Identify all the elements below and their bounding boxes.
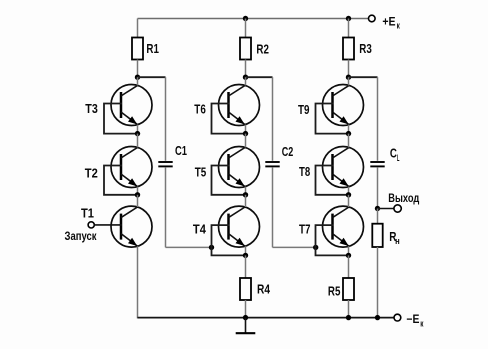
capacitor CL — [370, 146, 399, 167]
wire R2 to collector node — [245, 60, 247, 78]
wire CL branch upper — [377, 77, 379, 161]
svg-text:C2: C2 — [282, 144, 294, 159]
svg-text:к: к — [420, 318, 424, 328]
resistor R4 — [240, 278, 271, 300]
svg-text:Запуск: Запуск — [65, 229, 97, 243]
resistor R2 — [240, 38, 269, 60]
svg-text:R5: R5 — [328, 284, 341, 299]
node C2 to T7 base — [313, 245, 318, 250]
node C1 to T4 base — [209, 245, 214, 250]
svg-text:T5: T5 — [195, 164, 207, 179]
svg-text:T6: T6 — [194, 101, 206, 116]
svg-text:к: к — [397, 21, 401, 31]
wire T5 collector — [245, 134, 247, 148]
transistor T5 — [195, 147, 260, 188]
ground — [236, 318, 256, 334]
wire R1 to collector node — [137, 60, 139, 78]
wire CL to output node — [377, 168, 379, 209]
wire T3 emitter — [137, 125, 139, 134]
wire T7 base feedback — [316, 225, 349, 255]
svg-text:н: н — [395, 236, 400, 246]
node R4/ground junction — [243, 315, 248, 320]
node output tap — [375, 206, 380, 211]
node T6-T5 — [243, 131, 248, 136]
svg-text:T2: T2 — [85, 165, 98, 180]
transistor T2 — [85, 147, 152, 188]
svg-text:T4: T4 — [193, 222, 207, 237]
wire Rn to bottom rail — [377, 247, 379, 318]
svg-text:Выход: Выход — [388, 191, 419, 205]
node T3-T2 — [135, 131, 140, 136]
wire T4 collector — [245, 195, 247, 207]
resistor R1 — [132, 38, 159, 60]
wire output to Rn — [377, 209, 379, 224]
wire T2 collector — [137, 134, 139, 148]
node Rn bottom — [375, 315, 380, 320]
wire rail to R3 — [348, 19, 350, 38]
wire C1 branch upper — [165, 77, 167, 161]
wire T9 collector — [348, 77, 350, 85]
node T4 emitter/R4 — [243, 253, 248, 258]
svg-text:+E: +E — [382, 14, 395, 28]
resistor R3 — [343, 38, 372, 60]
transistor T9 — [298, 85, 364, 126]
svg-text:R1: R1 — [146, 41, 159, 56]
svg-text:C: C — [390, 146, 397, 161]
wire T1 collector — [137, 195, 139, 207]
transistor T4 — [193, 206, 260, 247]
wire C2 branch upper — [272, 77, 274, 161]
wire rail to R2 — [245, 19, 247, 38]
resistor Rn (load) — [372, 224, 399, 247]
transistor T8 — [299, 147, 364, 188]
svg-text:C1: C1 — [175, 143, 187, 158]
svg-text:R2: R2 — [256, 42, 269, 57]
wire T8 emitter — [348, 187, 350, 195]
wire T6 collector — [245, 77, 247, 85]
wire T7 emitter — [348, 246, 350, 255]
svg-text:T1: T1 — [81, 206, 94, 221]
wire T8 base feedback — [316, 166, 349, 195]
transistor T6 — [194, 85, 259, 126]
wire T5 base feedback — [212, 166, 246, 195]
node R2 top — [243, 16, 248, 21]
terminal Vykhod (output) — [378, 191, 420, 212]
wire T8 collector — [348, 134, 350, 148]
wire T9 base feedback — [316, 104, 349, 134]
node collector/C2 junction — [243, 75, 248, 80]
terminal +Ek — [369, 14, 401, 30]
node collector/CL junction — [346, 75, 351, 80]
transistor T1 — [81, 206, 152, 248]
node T5-T4 — [243, 192, 248, 197]
wire node to C1 branch — [138, 76, 166, 78]
wire T6 emitter — [245, 125, 247, 134]
wire T3 collector — [137, 77, 139, 85]
wire -E rail (bottom) — [138, 317, 394, 319]
transistor T7 — [299, 206, 364, 247]
wire +E rail (top) — [138, 18, 369, 20]
wire rail to R1 — [137, 19, 139, 38]
wire T4 node to R4 — [245, 255, 247, 278]
wire T1 emitter to bottom rail — [138, 246, 139, 317]
node T9-T8 — [346, 131, 351, 136]
svg-text:T3: T3 — [85, 101, 98, 116]
wire T3 base feedback — [104, 104, 138, 134]
node T7 emitter/R5 — [346, 253, 351, 258]
terminal -Ek — [394, 312, 424, 328]
svg-text:T8: T8 — [299, 164, 310, 179]
wire C1 branch lower — [166, 168, 212, 248]
capacitor C1 — [158, 143, 187, 166]
wire R4 to bottom rail — [245, 300, 247, 318]
svg-text:T7: T7 — [299, 222, 311, 237]
wire T6 base feedback — [212, 104, 246, 134]
svg-text:R3: R3 — [359, 41, 372, 56]
wire T7 collector — [348, 195, 350, 207]
resistor R5 — [328, 278, 354, 300]
wire C2 branch lower — [273, 168, 316, 248]
wire T4 emitter — [245, 246, 247, 255]
terminal Zapusk (start input) — [65, 222, 123, 243]
wire node to C2 branch — [246, 76, 273, 78]
node T8-T7 — [346, 192, 351, 197]
wire T4 base feedback — [212, 225, 246, 255]
wire R5 to bottom rail — [348, 300, 350, 318]
wire T7 node to R5 — [348, 255, 350, 278]
wire node to CL branch — [349, 76, 378, 78]
svg-text:R4: R4 — [257, 282, 271, 297]
wire T9 emitter — [348, 125, 350, 134]
svg-text:−E: −E — [406, 312, 419, 326]
wire T5 emitter — [245, 187, 247, 195]
wire T2 emitter — [137, 187, 139, 195]
transistor T3 — [85, 85, 152, 126]
node T2-T1 — [135, 192, 140, 197]
node collector/C1 junction — [135, 75, 140, 80]
node R3 top — [346, 16, 351, 21]
capacitor C2 — [265, 144, 293, 166]
node R5 bottom — [346, 315, 351, 320]
svg-text:T9: T9 — [298, 102, 310, 117]
svg-text:L: L — [397, 153, 400, 163]
wire R3 to collector node — [348, 60, 350, 78]
wire T2 base feedback — [104, 166, 138, 195]
